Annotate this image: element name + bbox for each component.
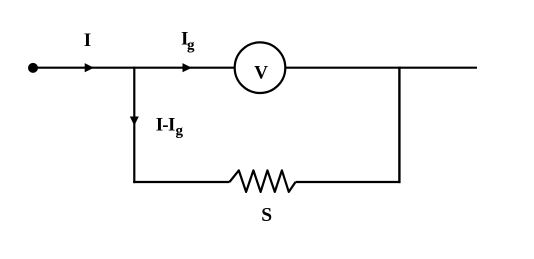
wire: input terminal to voltmeter left lead	[33, 67, 235, 69]
node A: input terminal dot	[28, 63, 38, 73]
wire: left vertical branch (shunt branch down)	[133, 67, 135, 184]
svg-text:I: I	[84, 30, 91, 51]
wire: resistor to bottom right segment	[296, 181, 401, 183]
svg-text:I-Ig: I-Ig	[156, 114, 184, 139]
wire: voltmeter right lead to right end	[285, 67, 477, 69]
svg-text:Ig: Ig	[181, 29, 195, 54]
wire: bottom left segment to resistor	[133, 181, 229, 183]
arrowhead: current Ig direction	[183, 63, 192, 72]
wire: right vertical branch	[398, 67, 400, 184]
arrowhead: current I-Ig direction (down)	[130, 117, 139, 126]
svg-text:V: V	[254, 62, 268, 83]
voltmeter U1: meter V	[235, 42, 286, 93]
svg-text:S: S	[261, 205, 272, 226]
resistor S (shunt)	[230, 170, 296, 192]
arrowhead: current I direction	[85, 63, 94, 72]
